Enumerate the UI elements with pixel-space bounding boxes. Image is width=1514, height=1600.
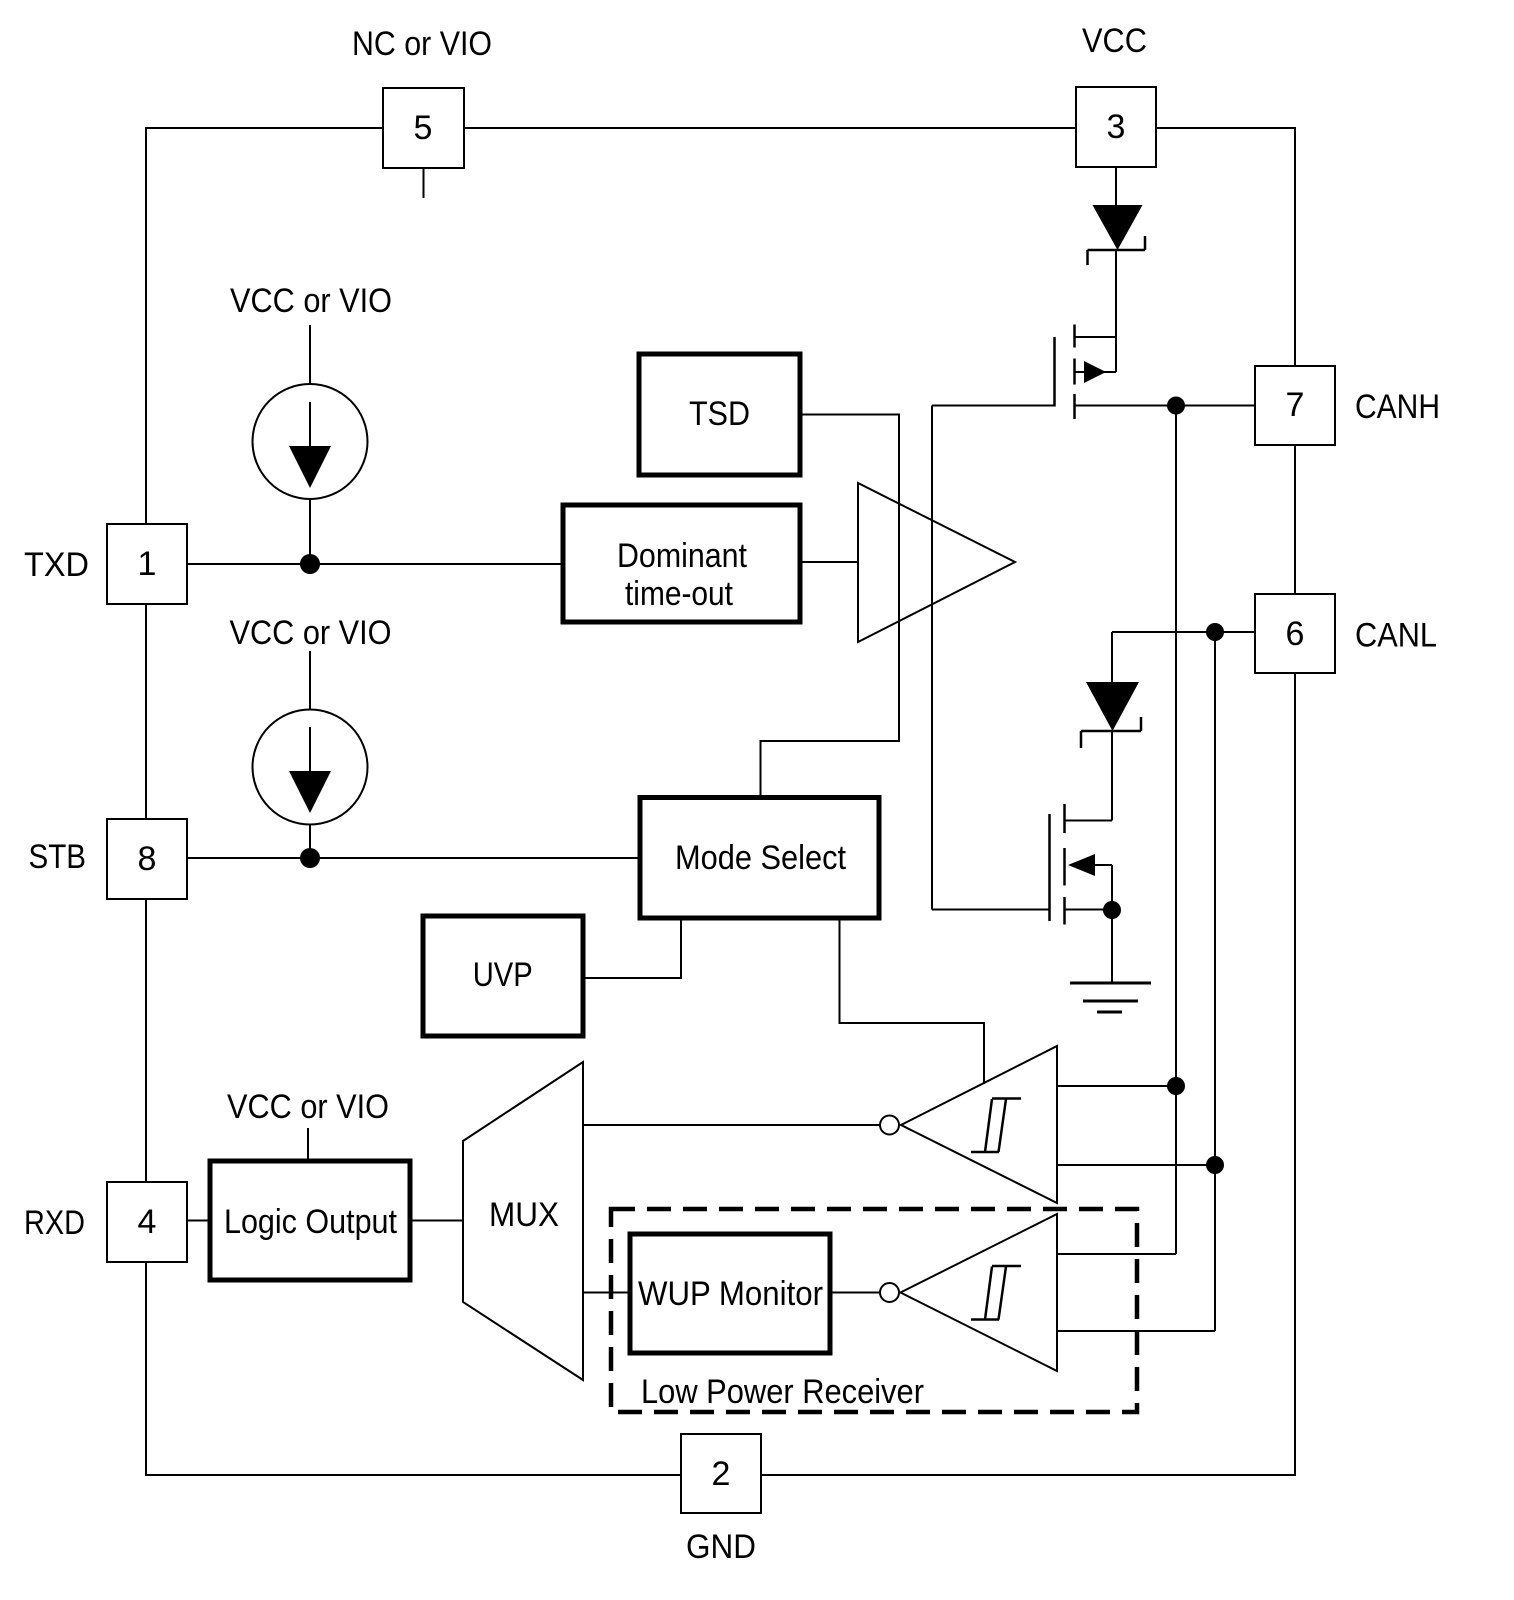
receiver amplifier RX2 low power (880, 1214, 1057, 1371)
wire pull-up stub above current source I1 (309, 325, 311, 384)
node Q2 source junction dot (1103, 901, 1121, 919)
wire pin5 NC stub (423, 168, 425, 198)
wire CANL to zener D2 (1111, 632, 1113, 682)
pin 2 (681, 1434, 761, 1513)
svg-text:8: 8 (138, 840, 157, 878)
svg-text:Logic Output: Logic Output (224, 1203, 397, 1241)
driver amplifier triangle (858, 483, 1015, 642)
wire RX1 input+ to CANH (1057, 1085, 1176, 1087)
block Logic Output (210, 1161, 410, 1280)
wire Mode Select to UVP (583, 918, 681, 978)
svg-text:UVP: UVP (473, 956, 533, 994)
svg-text:NC or VIO: NC or VIO (352, 25, 492, 63)
node TXD junction dot (300, 554, 320, 574)
zener diode D1 (1088, 205, 1146, 265)
wire Q1 source to CANH (1075, 405, 1256, 407)
transistor Q1 high-side PMOS (1055, 325, 1117, 420)
svg-text:VCC or VIO: VCC or VIO (230, 614, 392, 652)
wire CANH vertical to receiver (1175, 406, 1177, 1255)
IC boundary rectangle (146, 128, 1295, 1475)
svg-text:6: 6 (1286, 615, 1305, 653)
svg-text:4: 4 (138, 1203, 157, 1241)
wire VCC stub to Logic Output (307, 1128, 309, 1161)
svg-text:TSD: TSD (689, 395, 750, 433)
multiplexer MUX (463, 1062, 583, 1380)
svg-text:Low Power Receiver: Low Power Receiver (641, 1373, 924, 1411)
pin 4 (107, 1182, 187, 1262)
wire Dominant time-out to driver (800, 561, 858, 563)
wire CANL vertical to receiver (1214, 632, 1216, 1331)
transistor Q2 low-side NMOS (1050, 804, 1113, 925)
node RX1 CANL junction dot (1206, 1156, 1224, 1174)
current source I2 (253, 710, 368, 825)
svg-text:2: 2 (712, 1455, 731, 1493)
pin 3 (1076, 87, 1156, 167)
pin 1 (107, 524, 187, 604)
wire zener D1 to Q1 drain/body (1115, 250, 1117, 372)
pin 6 (1255, 594, 1335, 673)
svg-text:WUP Monitor: WUP Monitor (638, 1275, 823, 1313)
wire CANL horizontal (1112, 631, 1255, 633)
svg-text:MUX: MUX (489, 1196, 559, 1234)
svg-text:time-out: time-out (625, 575, 733, 613)
svg-text:7: 7 (1286, 386, 1305, 424)
wire TSD to Mode Select (761, 415, 900, 798)
node STB junction dot (300, 848, 320, 868)
svg-text:1: 1 (138, 545, 157, 583)
ground (1070, 983, 1151, 1012)
wire STB from pin8 to Mode Select (187, 857, 640, 859)
wire RX1 input- to CANL (1057, 1164, 1215, 1166)
wire WUP Monitor to RX2 (830, 1292, 880, 1294)
svg-text:3: 3 (1107, 108, 1126, 146)
wire driver output to high-side gate (932, 405, 1055, 407)
block UVP (423, 916, 583, 1036)
pin 7 (1255, 366, 1335, 445)
node RX1 CANH junction dot (1167, 1077, 1185, 1095)
wire TXD from pin1 to Dominant time-out (187, 563, 563, 565)
svg-text:VCC or VIO: VCC or VIO (230, 282, 392, 320)
svg-text:Dominant: Dominant (617, 537, 747, 575)
node CANH junction dot (1167, 397, 1185, 415)
wire RX2 input+ to CANH line (1057, 1253, 1176, 1255)
wire current source I1 to TXD line (309, 499, 311, 564)
zener diode D2 (1081, 682, 1141, 748)
svg-text:5: 5 (414, 109, 433, 147)
wire RX1 output to MUX (583, 1124, 880, 1126)
svg-text:GND: GND (686, 1528, 756, 1566)
block Mode Select (640, 798, 879, 919)
wire zener D2 to Q2 drain (1111, 731, 1113, 821)
wire pull-up stub above current source I2 (309, 651, 311, 709)
svg-text:STB: STB (29, 838, 87, 876)
wire Q2 source to ground (1111, 910, 1113, 983)
svg-text:VCC: VCC (1082, 22, 1147, 60)
wire pin3 to zener D1 (1115, 167, 1117, 205)
svg-text:CANH: CANH (1355, 388, 1440, 426)
block TSD (639, 354, 800, 475)
svg-text:Mode Select: Mode Select (675, 839, 846, 877)
block WUP Monitor (630, 1234, 830, 1353)
svg-text:VCC or VIO: VCC or VIO (227, 1088, 389, 1126)
pin 5 (383, 88, 464, 168)
receiver amplifier RX1 with hysteresis (880, 1046, 1057, 1203)
wire RX2 input- to CANL line (1057, 1330, 1215, 1332)
node CANL junction dot (1206, 623, 1224, 641)
wire MUX to WUP Monitor (583, 1292, 630, 1294)
wire current source I2 to STB line (309, 825, 311, 858)
svg-text:TXD: TXD (24, 546, 89, 584)
svg-text:CANL: CANL (1355, 617, 1437, 655)
block Dominant time-out (563, 505, 800, 622)
svg-text:RXD: RXD (24, 1204, 85, 1242)
wire pin4 to Logic Output (187, 1220, 210, 1222)
dashed box Low Power Receiver (611, 1209, 1137, 1412)
pin 8 (107, 819, 187, 899)
wire driver output vertical (931, 406, 933, 910)
wire Mode Select to receiver enable (840, 918, 985, 1084)
wire driver output to low-side gate (932, 909, 1050, 911)
current source I1 (253, 384, 368, 499)
wire Logic Output to MUX (410, 1220, 463, 1222)
